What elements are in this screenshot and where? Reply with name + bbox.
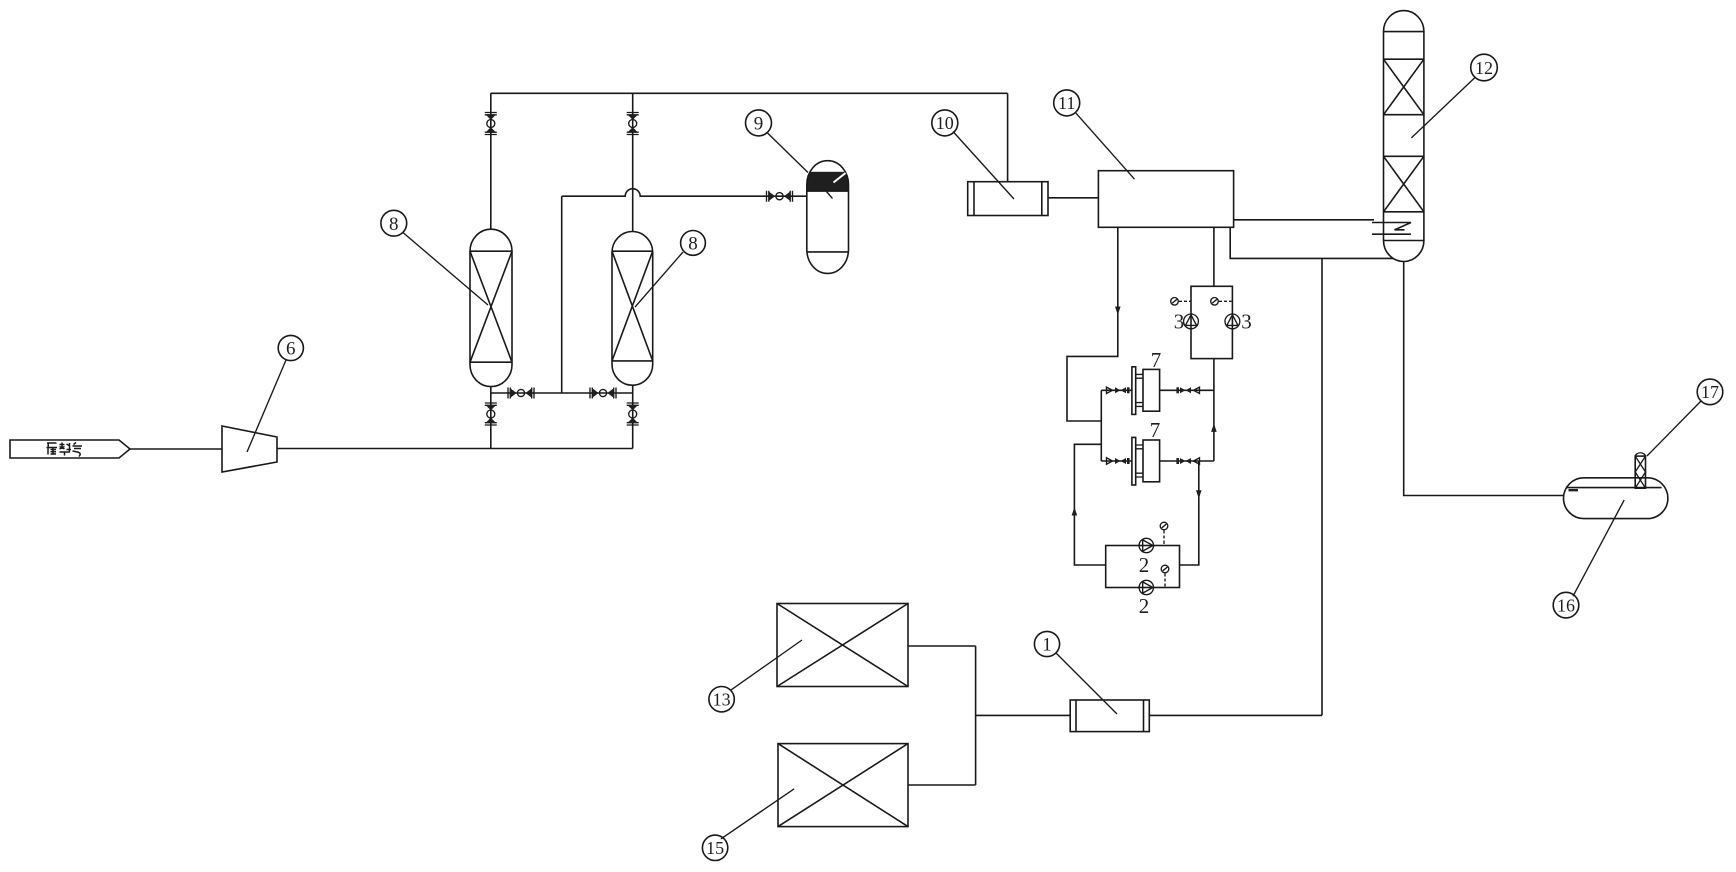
svg-text:15: 15	[706, 838, 724, 858]
svg-text:2: 2	[1139, 553, 1150, 577]
membrane unit 11	[1098, 171, 1233, 228]
valve manifold left	[508, 388, 534, 399]
storage tank 15	[778, 744, 908, 827]
label circle 15	[702, 789, 794, 861]
wire 11 to pump box 3	[1213, 227, 1215, 286]
label circle 8 right	[635, 231, 705, 308]
wire right drop to pump box 2	[1180, 461, 1199, 565]
wire filter 1 to riser	[1149, 714, 1322, 716]
valve bottom right	[627, 403, 639, 425]
feed flag 原料气	[10, 440, 130, 458]
wire header drop to separator 10	[1007, 93, 1009, 181]
demister 17 on tank 16	[1635, 453, 1645, 488]
svg-text:10: 10	[936, 113, 954, 133]
instrument right in pump box 3	[1211, 298, 1232, 306]
valve top right riser	[627, 113, 639, 135]
wire left column top riser	[490, 93, 492, 229]
label circle 9	[746, 110, 809, 173]
svg-text:3: 3	[1241, 310, 1252, 334]
svg-text:13: 13	[713, 690, 731, 710]
svg-text:7: 7	[1150, 418, 1161, 442]
pump box 3 loop	[1191, 286, 1232, 358]
label circle 17	[1647, 379, 1723, 456]
wire mid riser between columns	[561, 196, 563, 393]
pump 3 left	[1184, 314, 1199, 329]
wire left column bottom drop	[490, 387, 492, 449]
label circle 6	[247, 335, 303, 452]
wire top header	[491, 92, 1008, 94]
adsorber column 8 left	[470, 229, 512, 386]
separator vessel 10	[968, 182, 1048, 216]
wire tank 15 outlet	[908, 784, 976, 786]
wire right column top riser	[632, 93, 634, 231]
svg-text:7: 7	[1151, 348, 1162, 372]
reboiler coil in column 12	[1372, 223, 1411, 235]
storage tank 13	[777, 604, 908, 687]
wire exchanger left riser	[1100, 390, 1102, 461]
wire upper exchanger right pipe	[1160, 389, 1214, 391]
wire column 12 bottoms outlet	[1404, 262, 1564, 496]
label circle 11	[1054, 90, 1135, 179]
wire regeneration manifold	[491, 392, 633, 394]
label circle 16	[1553, 500, 1624, 618]
compressor 6	[222, 426, 277, 472]
valve cluster upper left	[1107, 387, 1130, 393]
wire tank 13 outlet	[908, 645, 976, 647]
valve cluster upper right	[1176, 387, 1199, 393]
heat exchanger 7 lower	[1132, 437, 1160, 485]
wire tee down to product line	[1321, 258, 1323, 715]
wire manifold to filter 1	[976, 714, 1071, 716]
svg-text:12: 12	[1475, 58, 1493, 78]
arrow down on drop	[1196, 490, 1202, 499]
wire tanks manifold	[975, 646, 977, 785]
svg-text:16: 16	[1557, 595, 1575, 615]
wire 11 to reboiler	[1234, 219, 1374, 221]
valve cluster lower left	[1107, 458, 1130, 464]
instrument above pump 2 top	[1160, 522, 1168, 544]
wire purge line with crossover hop	[562, 189, 807, 196]
pump 3 right	[1225, 314, 1240, 329]
label circle 13	[709, 640, 802, 712]
valve cluster lower right	[1176, 458, 1199, 464]
arrow down on drop	[1115, 307, 1121, 316]
arrow up on loop	[1072, 507, 1078, 516]
wire upper exchanger left pipe	[1101, 389, 1132, 391]
pump 2 top	[1139, 538, 1153, 552]
svg-text:2: 2	[1139, 594, 1150, 618]
label circle 1	[1034, 631, 1117, 714]
wire lower exchanger left pipe	[1101, 460, 1132, 462]
arrow up on riser	[1211, 423, 1217, 432]
valve top left riser	[485, 113, 497, 135]
adsorber column 8 right	[612, 232, 653, 386]
pump box 2 loop	[1106, 546, 1180, 588]
svg-text:11: 11	[1058, 93, 1075, 113]
wire 11 left bottom drop	[1067, 227, 1118, 421]
svg-text:6: 6	[286, 339, 296, 360]
valve bottom left	[485, 403, 497, 425]
svg-text:8: 8	[688, 233, 698, 254]
label circle 10	[932, 110, 1014, 199]
wire feed line to compressor	[130, 448, 222, 450]
svg-text:3: 3	[1174, 310, 1185, 334]
svg-text:8: 8	[389, 214, 399, 235]
wire 11 bottoms to column base	[1230, 227, 1393, 258]
wire right column bottom drop	[632, 385, 634, 448]
svg-text:1: 1	[1042, 635, 1052, 656]
instrument left of pump box 3	[1171, 298, 1191, 306]
valve purge line	[767, 191, 793, 202]
heat exchanger 7 upper	[1132, 367, 1160, 415]
wire compressor outlet / bottom manifold	[277, 448, 633, 450]
svg-text:17: 17	[1701, 382, 1719, 402]
valve manifold right	[590, 388, 616, 399]
buffer vessel 9	[807, 161, 849, 274]
svg-text:9: 9	[754, 114, 764, 135]
wire pump box 3 down riser	[1213, 359, 1215, 461]
product tank 16	[1564, 478, 1668, 519]
rectifying column 12	[1384, 11, 1424, 262]
wire 10 to 11	[1048, 197, 1098, 199]
wire loop to pump box 2	[1074, 444, 1105, 565]
filter vessel 1	[1070, 700, 1149, 732]
label circle 12	[1411, 54, 1497, 138]
label circle 8 left	[381, 210, 488, 305]
wire lower exchanger right pipe	[1160, 460, 1214, 462]
pump 2 bottom	[1139, 580, 1153, 594]
instrument above pump 2 bottom	[1161, 565, 1169, 586]
